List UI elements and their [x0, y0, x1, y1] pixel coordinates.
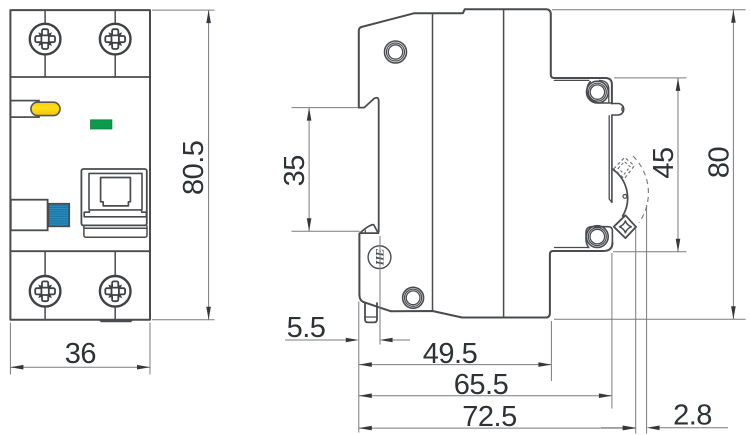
svg-text:5.5: 5.5	[287, 312, 326, 344]
svg-text:49.5: 49.5	[423, 338, 477, 370]
extension line 80.5 top	[152, 9, 215, 11]
bottom terminal divider left	[44, 251, 46, 320]
test button housing	[10, 101, 39, 118]
extension line left edge vertical	[358, 302, 360, 433]
arrow 65.5 right	[599, 393, 612, 398]
inner vertical part line left	[432, 13, 434, 311]
svg-text:72.5: 72.5	[462, 401, 516, 433]
dimension line 80	[732, 10, 734, 320]
dimension line 49.5	[359, 364, 552, 366]
extension line 80.5 bottom	[152, 319, 215, 321]
toggle handle	[101, 178, 131, 206]
extension line 80 top	[552, 9, 746, 11]
terminal screw top-left	[30, 24, 61, 55]
dimension line 45	[677, 78, 679, 252]
toggle OFF position dashed arc	[633, 156, 648, 223]
top rivet pocket inner corner	[600, 80, 609, 103]
toggle bottom strip 1	[84, 225, 147, 228]
arrow 80 top	[731, 10, 736, 23]
svg-text:2.8: 2.8	[673, 400, 712, 432]
side body bottom profile	[359, 243, 612, 318]
bottom terminal divider right	[114, 251, 116, 320]
arrow 45 top	[676, 78, 681, 91]
recess plate outer edge	[611, 115, 613, 202]
extension line 65.5 right	[611, 253, 613, 409]
toggle OFF position dashed diamond inner	[618, 162, 630, 174]
label window (white)	[11, 200, 48, 231]
top terminal divider right	[114, 10, 116, 77]
inner vertical part line right	[503, 9, 505, 317]
dimension line 65.5	[359, 395, 612, 397]
test button (yellow)	[31, 102, 60, 115]
dimension line 72.5	[359, 427, 636, 429]
blue terminal cap	[48, 204, 69, 227]
din clip tab under front view bottom edge	[99, 320, 134, 322]
arrow 80 bottom	[731, 306, 736, 319]
arrow 49.5 right	[538, 362, 551, 367]
extension line 45 top	[614, 77, 687, 79]
extension line 36 left	[9, 323, 11, 375]
arrow 36 left	[10, 365, 23, 370]
toggle inner frame	[89, 173, 142, 210]
toggle pivot tab	[612, 104, 624, 116]
bottom rivet boss	[586, 227, 612, 248]
arrow 72.5 left	[359, 426, 372, 431]
dimension line 36	[10, 366, 150, 368]
bottom terminal block separator line	[10, 250, 150, 252]
top rivet pocket arc	[587, 82, 612, 103]
arrow 80.5 top	[206, 10, 211, 23]
toggle pedestal step 2	[84, 210, 146, 217]
arrow 49.5 left	[359, 362, 372, 367]
leader line 2.8 left	[601, 427, 623, 429]
toggle pedestal step 1	[89, 209, 142, 211]
extension line 2.8 right	[646, 205, 648, 434]
arrow 5.5 left (points right)	[346, 338, 359, 343]
front block lip line	[555, 247, 589, 249]
svg-text:35: 35	[279, 155, 311, 186]
terminal screw bottom-left	[30, 276, 61, 307]
logo circle	[368, 246, 391, 269]
top-left rivet	[385, 41, 407, 63]
side body lower-left edge	[358, 234, 360, 296]
toggle bottom strip 2	[84, 228, 147, 237]
din rail clip foot	[365, 303, 377, 322]
terminal screw bottom-right	[100, 276, 131, 307]
arrow 35 top	[307, 108, 312, 121]
dimension line 80.5	[208, 10, 210, 320]
svg-text:80: 80	[703, 147, 735, 178]
flag inner fold line	[364, 230, 366, 233]
bottom-right rivet	[586, 226, 608, 248]
tab crescent mark	[622, 107, 623, 112]
toggle OFF position dashed diamond outer	[614, 157, 635, 178]
toggle tip diamond	[614, 215, 636, 238]
arrow 45 bottom	[676, 239, 681, 252]
arrow 2.8 right (points left)	[647, 426, 660, 431]
dimension line 35	[308, 108, 310, 232]
top-right rivet	[587, 81, 609, 103]
extension line hook edge vertical	[379, 236, 381, 345]
svg-text:65.5: 65.5	[454, 369, 508, 401]
arrow 36 right	[137, 365, 150, 370]
extension line 35 top	[292, 107, 358, 109]
recess plate inner edge	[609, 116, 612, 203]
leader line 5.5 left	[285, 339, 347, 341]
leader line 2.8 right tail	[660, 427, 728, 429]
arrow 5.5 right (points left)	[380, 338, 393, 343]
arrow 72.5 right	[623, 426, 636, 431]
bottom-left rivet	[403, 287, 424, 308]
leader line 5.5 right tail	[393, 339, 410, 341]
toggle pivot dot	[623, 195, 627, 199]
extension line 72.5 right	[635, 229, 637, 434]
extension line 36 right	[149, 323, 151, 375]
svg-text:80.5: 80.5	[178, 141, 210, 195]
top rivet pocket lip line	[554, 79, 589, 81]
toggle handle arc (ON position)	[612, 169, 627, 216]
toggle switch housing	[81, 169, 147, 237]
indicator LED (green)	[91, 120, 112, 129]
terminal screw top-right	[100, 24, 131, 55]
extension line 45 bottom	[613, 251, 687, 253]
extension line 80 bottom	[554, 318, 746, 320]
extension line 35 bottom	[292, 230, 360, 232]
top terminal divider left	[44, 10, 46, 77]
svg-text:36: 36	[65, 338, 96, 370]
top terminal block separator line	[10, 76, 150, 78]
side body ledge at 35-dim top	[359, 98, 379, 233]
svg-text:45: 45	[648, 147, 680, 178]
arrow 35 bottom	[307, 218, 312, 231]
diamond inner star	[620, 221, 632, 233]
extension line 49.5 right	[550, 321, 552, 381]
arrow 2.8 left (points right)	[623, 426, 636, 431]
arrow 65.5 left	[359, 393, 372, 398]
clip foot inner line	[365, 316, 377, 318]
side body upper outline	[359, 9, 612, 107]
arrow 80.5 bottom	[206, 307, 211, 320]
din clip release flag (fin)	[360, 225, 379, 233]
front body outline	[10, 10, 150, 320]
